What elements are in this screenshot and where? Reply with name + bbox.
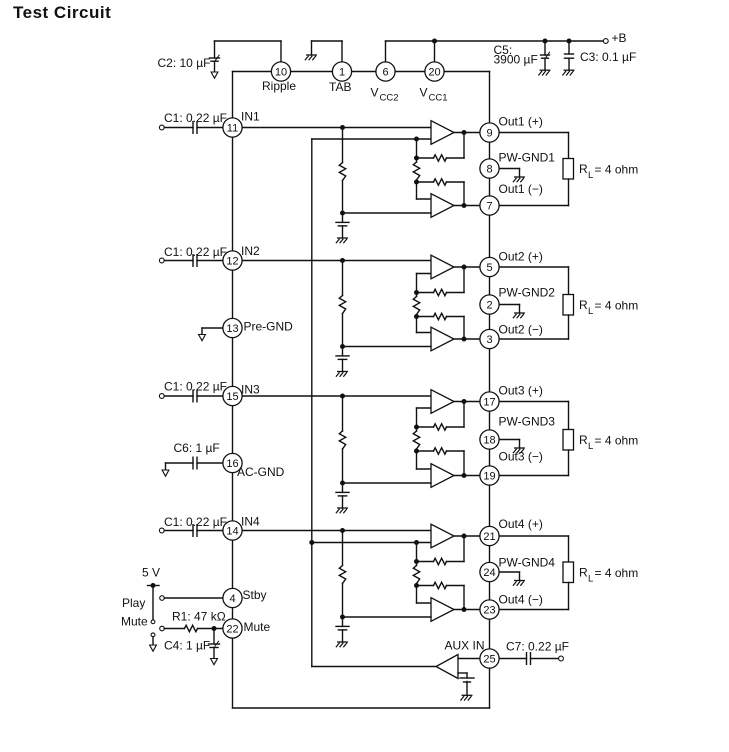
svg-text:AC-GND: AC-GND (237, 465, 285, 479)
svg-text:Out4 (+): Out4 (+) (499, 517, 543, 531)
svg-text:16: 16 (226, 458, 238, 470)
svg-text:R1: 47 kΩ: R1: 47 kΩ (172, 610, 226, 624)
svg-text:PW-GND2: PW-GND2 (499, 285, 556, 299)
svg-text:3900 µF: 3900 µF (494, 53, 538, 67)
svg-text:14: 14 (226, 525, 238, 537)
svg-text:PW-GND4: PW-GND4 (499, 555, 556, 569)
svg-text:21: 21 (483, 531, 495, 543)
svg-text:C3: 0.1 µF: C3: 0.1 µF (580, 50, 636, 64)
svg-text:R: R (579, 298, 588, 312)
svg-text:23: 23 (483, 604, 495, 616)
svg-text:Play: Play (122, 596, 145, 610)
svg-text:25: 25 (483, 653, 495, 665)
svg-text:= 4 ohm: = 4 ohm (595, 434, 639, 448)
svg-text:12: 12 (226, 255, 238, 267)
svg-text:Mute: Mute (244, 620, 271, 634)
svg-text:V: V (420, 86, 428, 100)
svg-text:11: 11 (227, 122, 238, 134)
svg-text:R: R (579, 162, 588, 176)
svg-text:AUX IN: AUX IN (445, 639, 485, 653)
svg-text:+B: +B (612, 31, 627, 45)
svg-text:18: 18 (483, 434, 495, 446)
svg-text:V: V (371, 86, 379, 100)
svg-text:6: 6 (382, 66, 388, 78)
svg-text:IN3: IN3 (241, 383, 260, 397)
svg-text:= 4 ohm: = 4 ohm (595, 299, 639, 313)
svg-text:L: L (588, 306, 593, 317)
svg-text:Out3 (+): Out3 (+) (499, 384, 543, 398)
svg-text:Stby: Stby (243, 588, 267, 602)
svg-text:Mute: Mute (121, 615, 148, 629)
svg-text:L: L (588, 441, 593, 452)
svg-text:13: 13 (226, 323, 238, 335)
svg-text:2: 2 (486, 299, 492, 311)
svg-text:Out3 (−): Out3 (−) (499, 449, 543, 463)
svg-text:PW-GND3: PW-GND3 (499, 414, 556, 428)
svg-text:Out2 (−): Out2 (−) (499, 323, 543, 337)
svg-text:C1: 0.22 µF: C1: 0.22 µF (164, 111, 227, 125)
svg-text:CC1: CC1 (429, 92, 448, 103)
svg-text:7: 7 (486, 200, 492, 212)
svg-text:PW-GND1: PW-GND1 (499, 150, 556, 164)
svg-text:C1: 0.22 µF: C1: 0.22 µF (164, 245, 227, 259)
svg-text:Out4 (−): Out4 (−) (499, 592, 543, 606)
svg-text:17: 17 (483, 396, 495, 408)
svg-text:10: 10 (275, 66, 287, 78)
svg-text:C7: 0.22 µF: C7: 0.22 µF (506, 640, 569, 654)
svg-text:TAB: TAB (329, 80, 351, 94)
svg-text:= 4 ohm: = 4 ohm (595, 163, 639, 177)
svg-text:15: 15 (226, 391, 238, 403)
svg-text:4: 4 (229, 593, 235, 605)
svg-text:C4: 1 µF: C4: 1 µF (164, 639, 210, 653)
svg-text:Out1 (−): Out1 (−) (499, 182, 543, 196)
svg-text:1: 1 (339, 66, 345, 78)
svg-text:22: 22 (226, 623, 238, 635)
svg-text:L: L (588, 170, 593, 181)
svg-text:C2: 10 µF: C2: 10 µF (158, 56, 211, 70)
svg-text:3: 3 (486, 334, 492, 346)
svg-text:5: 5 (486, 262, 492, 274)
svg-text:C1: 0.22 µF: C1: 0.22 µF (164, 380, 227, 394)
svg-text:R: R (579, 433, 588, 447)
svg-text:IN2: IN2 (241, 244, 260, 258)
svg-text:Out1 (+): Out1 (+) (499, 114, 543, 128)
svg-text:8: 8 (486, 163, 492, 175)
svg-text:19: 19 (483, 470, 495, 482)
svg-text:20: 20 (428, 66, 440, 78)
svg-text:IN4: IN4 (241, 515, 260, 529)
svg-text:Pre-GND: Pre-GND (244, 320, 294, 334)
svg-text:9: 9 (486, 127, 492, 139)
svg-text:IN1: IN1 (241, 109, 260, 123)
svg-text:C6: 1 µF: C6: 1 µF (174, 441, 220, 455)
svg-text:Test Circuit: Test Circuit (13, 3, 111, 22)
svg-text:Out2 (+): Out2 (+) (499, 249, 543, 263)
svg-text:24: 24 (483, 567, 495, 579)
svg-text:5 V: 5 V (142, 566, 160, 580)
svg-text:CC2: CC2 (380, 92, 399, 103)
svg-text:= 4 ohm: = 4 ohm (595, 566, 639, 580)
svg-text:R: R (579, 566, 588, 580)
svg-text:L: L (588, 573, 593, 584)
svg-text:C1: 0.22 µF: C1: 0.22 µF (164, 515, 227, 529)
